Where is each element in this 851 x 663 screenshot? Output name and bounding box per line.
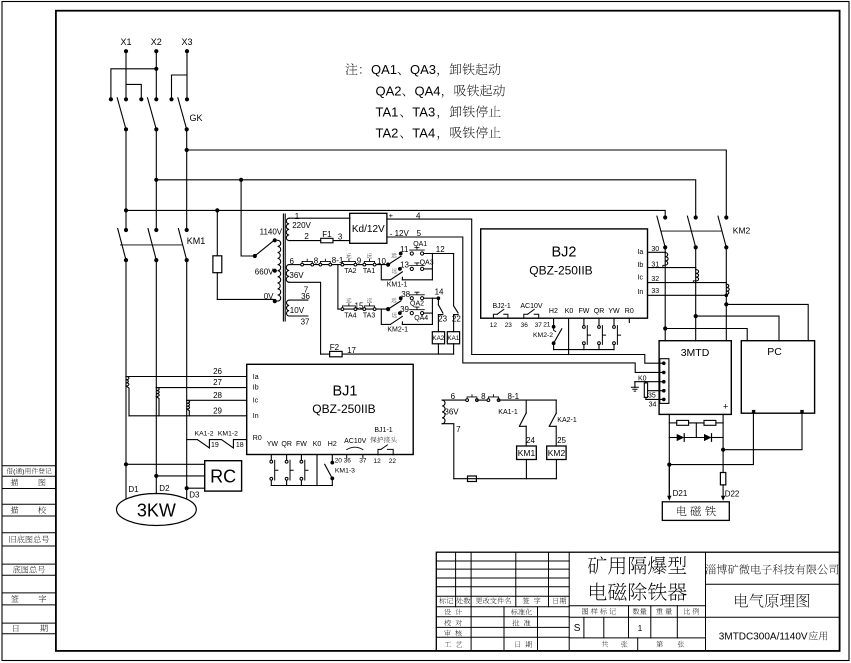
selector blade to row 38: [388, 301, 401, 309]
stop button TA3: [363, 308, 366, 311]
junction 12/13 vertical: [431, 254, 433, 280]
36V control winding: [442, 400, 445, 424]
left margin strip rows: [2, 465, 56, 467]
wire X2 down with crossover branch: [155, 51, 157, 99]
row 38 start button QA2: [399, 296, 403, 300]
svg-text:YW: YW: [267, 441, 279, 448]
electromagnet box: [662, 502, 729, 521]
auxiliary contact KM2-2: [553, 318, 555, 327]
CT coil phase 1: [126, 377, 129, 387]
svg-text:Ia: Ia: [637, 249, 643, 256]
pin K0 wire: [568, 318, 570, 354]
pin K0 with ground: [635, 381, 664, 383]
BJ1 pin 26/Ia: [126, 376, 247, 378]
svg-text:S: S: [574, 623, 581, 634]
svg-text:9: 9: [357, 257, 362, 266]
svg-text:R0: R0: [253, 435, 262, 442]
bottom wire of BJ2 output contacts: [554, 349, 614, 351]
svg-text:K0: K0: [313, 441, 322, 448]
svg-text:QBZ-250IIB: QBZ-250IIB: [312, 402, 375, 416]
svg-text:6: 6: [290, 257, 295, 266]
BJ1 pin 27/Ib: [156, 387, 246, 389]
svg-text:D2: D2: [159, 484, 170, 493]
transformer 220V secondary: [286, 218, 289, 240]
snubber RC: [124, 462, 128, 466]
PC bottom terminals: [752, 410, 755, 413]
svg-text:1140V: 1140V: [260, 228, 283, 237]
wire to 0V tap: [217, 298, 274, 300]
svg-text:F2: F2: [330, 343, 340, 352]
svg-text:KA1-1: KA1-1: [498, 409, 518, 416]
wire GK pole2 down: [155, 129, 157, 230]
stop button TA4: [338, 308, 388, 310]
svg-text:BJ2: BJ2: [552, 245, 577, 261]
wire 23 break contact: [438, 305, 443, 313]
title block grid: [436, 552, 839, 651]
center link: [695, 423, 697, 438]
relay contact KA2-1: [555, 400, 557, 413]
svg-text:19: 19: [211, 442, 219, 449]
stop button TA2: [341, 263, 344, 266]
svg-text:26: 26: [213, 367, 222, 376]
svg-text:36: 36: [344, 458, 352, 465]
svg-text:KM1: KM1: [187, 236, 206, 246]
wire GK pole3 down: [186, 129, 188, 230]
svg-text:QBZ-250IIB: QBZ-250IIB: [529, 264, 592, 278]
bus wire L3 to KM2: [185, 148, 189, 152]
svg-text:X1: X1: [121, 37, 132, 47]
svg-text:FW: FW: [296, 441, 307, 448]
fuse F1: [321, 238, 333, 243]
PC right terminal wire: [723, 413, 802, 449]
svg-text:20: 20: [335, 458, 343, 465]
svg-text:Ic: Ic: [253, 398, 259, 405]
svg-text:Ia: Ia: [253, 374, 259, 381]
contactor KM1 main contacts: [124, 228, 128, 232]
svg-text:KM2: KM2: [548, 448, 566, 458]
svg-text:): ): [22, 469, 24, 476]
svg-text:X2: X2: [151, 37, 162, 47]
svg-text:KM1-1: KM1-1: [387, 282, 408, 289]
output contact YW below BJ1: [270, 455, 272, 460]
svg-text:13: 13: [400, 261, 409, 270]
svg-text:QA1: QA1: [413, 241, 427, 248]
svg-text:18: 18: [236, 442, 244, 449]
svg-text:KM2: KM2: [733, 226, 751, 236]
svg-text:TA1: TA1: [376, 104, 399, 119]
transformer 10V secondary: [287, 300, 290, 316]
svg-text:TA4: TA4: [344, 313, 356, 320]
svg-text:KM1: KM1: [518, 448, 536, 458]
motor 3KW: [125, 464, 127, 498]
svg-text:3MTD: 3MTD: [681, 347, 710, 359]
wires down to motor terminals: [125, 377, 127, 465]
bottom wire of BJ1 output contacts: [271, 485, 332, 487]
thyristor module 3MTD: [659, 341, 731, 415]
svg-text:+: +: [723, 401, 728, 411]
motor phase wires down: [125, 260, 127, 376]
svg-text:In: In: [637, 289, 643, 296]
balancing resistors: [669, 422, 676, 424]
title block text: [588, 556, 607, 574]
contact BJ2-1 on bottom edge: [493, 314, 497, 318]
svg-text:TA2: TA2: [376, 125, 399, 140]
svg-text:2: 2: [304, 232, 309, 241]
svg-text:QA2: QA2: [410, 301, 424, 308]
svg-text:TA2: TA2: [344, 268, 356, 275]
output contact FW: [583, 318, 585, 325]
wire X3 down with crossover branch: [186, 51, 188, 99]
contact AC10V on bottom edge: [524, 314, 528, 318]
svg-text:QA3: QA3: [410, 62, 436, 77]
svg-text:KA2: KA2: [432, 335, 444, 342]
relay contact KA1-1: [525, 400, 527, 413]
svg-text:PC: PC: [767, 346, 782, 358]
svg-text:21: 21: [543, 322, 551, 329]
svg-text:Ic: Ic: [638, 275, 644, 282]
svg-text:QR: QR: [594, 308, 605, 315]
svg-text:12: 12: [374, 458, 382, 465]
output contact YW: [613, 318, 615, 325]
svg-text:23: 23: [505, 322, 513, 329]
svg-text:AC10V: AC10V: [344, 438, 367, 445]
svg-text:3KW: 3KW: [137, 500, 176, 520]
NC contact 8-1: [487, 399, 490, 402]
svg-text:KM1-2: KM1-2: [218, 430, 238, 437]
output contact QR below BJ1: [286, 455, 288, 460]
control board PC: [741, 341, 814, 414]
svg-text:R0: R0: [625, 308, 634, 315]
svg-text:38: 38: [401, 290, 410, 299]
junction 38/39 vertical: [431, 298, 433, 324]
protection relay BJ2 QBZ-250IIB: [481, 229, 648, 318]
svg-text:TA3: TA3: [412, 104, 435, 119]
wire X1 down with crossover branch: [125, 51, 127, 99]
svg-text:0V: 0V: [264, 292, 274, 301]
phase wire 1 down with CT: [664, 247, 666, 340]
PC left terminal wire: [669, 413, 753, 464]
tap selector blade to 1140V: [255, 241, 274, 256]
wire 12 down to KA1: [453, 254, 455, 306]
svg-text:Ib: Ib: [637, 262, 643, 269]
row 39 start button QA4: [398, 311, 402, 315]
svg-text:22: 22: [452, 315, 461, 324]
output contact FW below BJ1: [300, 455, 302, 460]
svg-text:3: 3: [338, 232, 343, 241]
contactor KM2 main contacts: [663, 215, 667, 219]
svg-text:12: 12: [436, 245, 445, 254]
svg-text:36V: 36V: [444, 408, 459, 417]
svg-text:8: 8: [481, 392, 486, 401]
wire 17: [321, 353, 330, 355]
svg-text:14: 14: [435, 288, 444, 297]
output contact QR: [598, 318, 600, 325]
svg-text:KM1-3: KM1-3: [335, 468, 355, 475]
phase wire 3 down with CT: [725, 247, 727, 340]
svg-text:1: 1: [638, 624, 643, 633]
svg-text:23: 23: [438, 315, 447, 324]
svg-text:BJ1-1: BJ1-1: [374, 427, 392, 434]
terminal D22 arrow: [722, 485, 724, 497]
svg-text:10V: 10V: [290, 306, 305, 315]
taps to PC: [663, 326, 667, 330]
svg-text:F1: F1: [322, 230, 332, 239]
svg-text:37: 37: [359, 458, 367, 465]
svg-text:(: (: [13, 469, 16, 476]
coil return wires: [525, 460, 527, 479]
svg-text:K0: K0: [565, 308, 574, 315]
svg-text:36: 36: [521, 322, 529, 329]
svg-text:FW: FW: [579, 308, 590, 315]
svg-text:37: 37: [301, 318, 310, 327]
svg-text:TA4: TA4: [412, 125, 435, 140]
output right leg: [722, 414, 724, 449]
svg-text:QA4: QA4: [414, 315, 428, 322]
rectifier Kd/12V: [350, 213, 387, 243]
svg-text:29: 29: [213, 406, 222, 415]
transformer core: [282, 214, 284, 321]
wire 22 break contact: [454, 306, 459, 313]
svg-text:27: 27: [213, 378, 222, 387]
bus wire L2 to KM2: [154, 178, 158, 182]
svg-text:22: 22: [389, 458, 397, 465]
svg-text:KM2-2: KM2-2: [533, 332, 553, 339]
svg-text:KA2-1: KA2-1: [557, 417, 577, 424]
svg-text:D3: D3: [189, 491, 200, 500]
svg-text:6: 6: [451, 392, 456, 401]
svg-text:8-1: 8-1: [508, 392, 520, 401]
svg-text:X3: X3: [182, 37, 193, 47]
CT coil phase 2: [156, 388, 159, 397]
fuse on control tap: [215, 208, 219, 212]
BJ1 pin 28/Ic: [187, 399, 247, 401]
svg-text:36: 36: [301, 292, 310, 301]
svg-text:37: 37: [535, 322, 543, 329]
disconnect switch GK: [109, 97, 113, 101]
fuse to D22: [722, 450, 724, 473]
auxiliary contact KM1-3: [331, 455, 333, 463]
svg-text:1: 1: [295, 212, 300, 221]
svg-text:RC: RC: [210, 466, 236, 486]
svg-text:KA1-2: KA1-2: [195, 430, 214, 437]
wire 14 down to KA2: [437, 296, 441, 300]
svg-text:17: 17: [347, 346, 356, 355]
svg-text:11: 11: [400, 245, 409, 254]
row 13 start button QA3: [398, 267, 402, 271]
svg-text:24: 24: [526, 436, 535, 445]
pin K0 wire below BJ1: [316, 455, 318, 486]
svg-text:QA4: QA4: [415, 83, 441, 98]
wire GK pole1 down: [125, 129, 127, 230]
fuse F2: [330, 351, 343, 356]
svg-text:H2: H2: [328, 441, 337, 448]
stop button TA1: [363, 263, 366, 266]
svg-text:H2: H2: [549, 308, 558, 315]
svg-text:3MTDC300A/1140V: 3MTDC300A/1140V: [719, 632, 808, 643]
svg-text:In: In: [253, 413, 259, 420]
svg-text:D1: D1: [128, 485, 139, 494]
svg-text:Kd/12V: Kd/12V: [352, 224, 385, 235]
selector blade to row 11: [388, 256, 401, 264]
svg-text:220V: 220V: [292, 221, 311, 230]
svg-text:YW: YW: [608, 308, 620, 315]
svg-text:TA3: TA3: [363, 313, 375, 320]
svg-text:7: 7: [456, 425, 461, 434]
relay coil KA1: [447, 332, 459, 344]
svg-text:TA1: TA1: [363, 268, 375, 275]
relay coil KA2: [432, 332, 444, 344]
svg-text:D22: D22: [725, 490, 740, 499]
transformer T1 primary winding: [239, 178, 243, 182]
svg-text:8: 8: [314, 256, 319, 265]
pin R0 stub: [628, 318, 630, 322]
control return wire with fuse: [454, 478, 557, 480]
svg-text:QA3: QA3: [420, 260, 434, 267]
svg-text:D21: D21: [673, 489, 688, 498]
svg-text:Ib: Ib: [253, 385, 259, 392]
svg-text:BJ2-1: BJ2-1: [493, 303, 511, 310]
protection relay BJ1 QBZ-250IIB: [247, 364, 414, 454]
svg-text:KM2-1: KM2-1: [387, 326, 408, 333]
output left leg: [668, 414, 670, 495]
freewheel diodes: [669, 437, 676, 439]
wires relays to 17: [437, 344, 439, 354]
transformer 36V secondary: [286, 265, 289, 283]
branch down to lower chain: [337, 265, 339, 310]
svg-text:QA2: QA2: [376, 83, 402, 98]
svg-text:12: 12: [490, 322, 498, 329]
terminal D21 arrow: [668, 465, 670, 497]
svg-text:GK: GK: [190, 113, 203, 123]
auxiliary contact KM1-1: [381, 265, 390, 280]
svg-text:QA1: QA1: [371, 62, 397, 77]
svg-text:33: 33: [651, 288, 659, 295]
BJ1 pin 29/In common return: [129, 415, 247, 417]
3MTD pin block: [660, 359, 669, 404]
svg-text:34: 34: [649, 402, 657, 409]
svg-text:BJ1: BJ1: [333, 384, 358, 400]
svg-text:25: 25: [557, 436, 566, 445]
svg-text:660V: 660V: [255, 267, 274, 276]
CT coil phase 3: [187, 400, 190, 409]
svg-text:KA1: KA1: [447, 335, 459, 342]
svg-text:AC10V: AC10V: [520, 303, 543, 310]
bus wire L1 to KM2: [124, 208, 128, 212]
phase wire 2 down with CT: [695, 247, 697, 340]
svg-text:QR: QR: [281, 441, 292, 448]
svg-text:35: 35: [648, 393, 656, 400]
NC contact 8: [466, 399, 469, 402]
svg-text:39: 39: [400, 305, 409, 314]
resistor R35: [644, 383, 647, 398]
svg-text:36V: 36V: [289, 271, 304, 280]
auxiliary contact KM2-1: [381, 309, 390, 324]
notes text: [346, 63, 358, 75]
svg-text:28: 28: [213, 391, 222, 400]
row 11 start button QA1: [399, 252, 403, 256]
